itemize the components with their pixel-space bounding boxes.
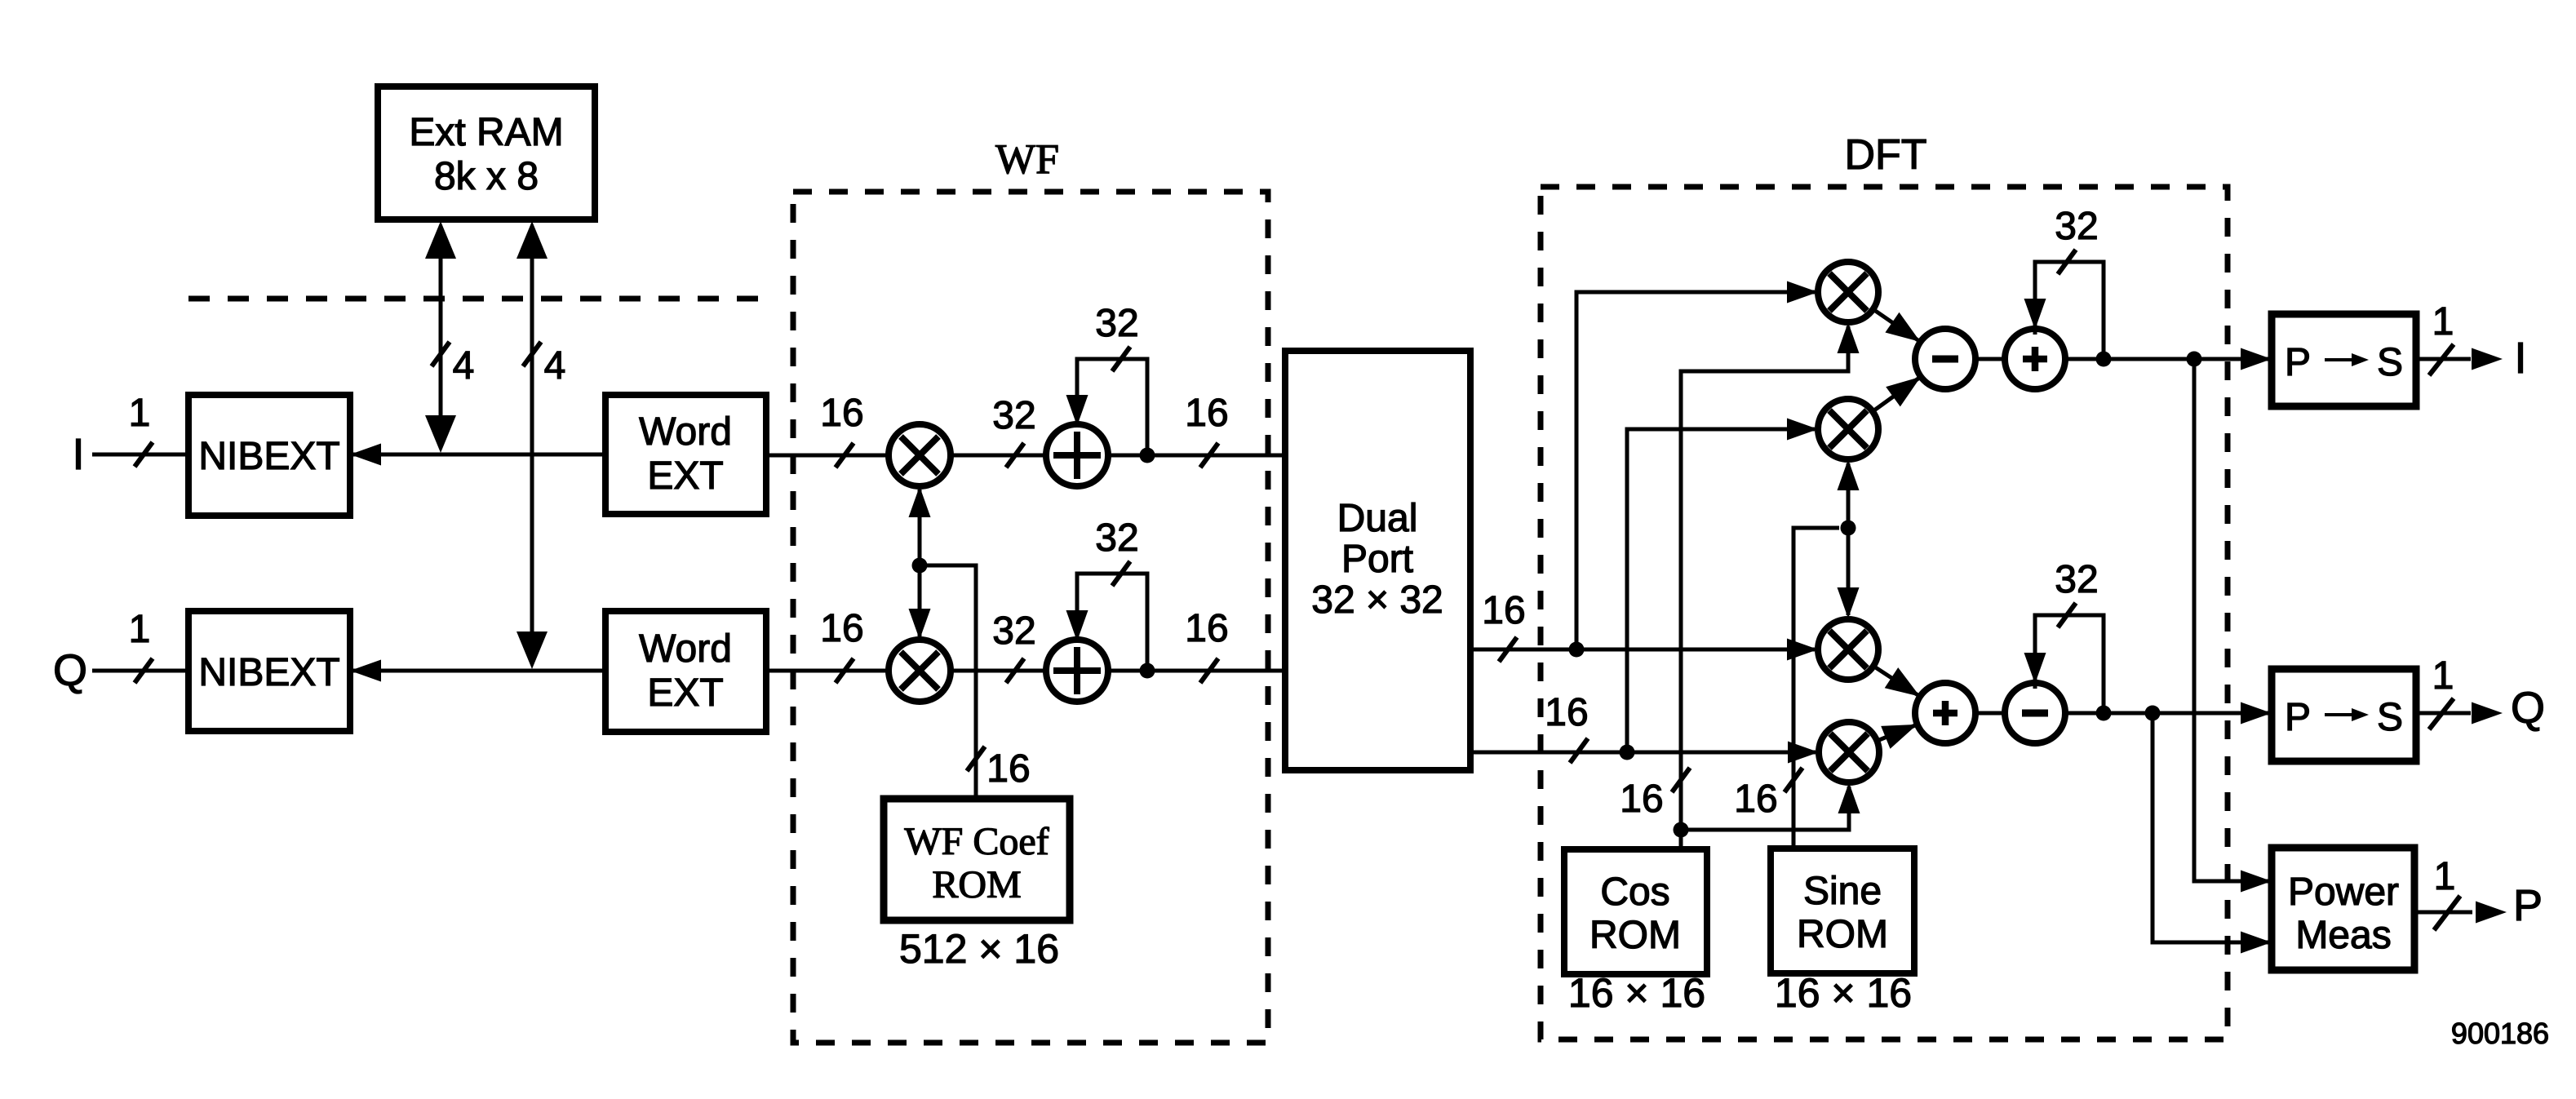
wire I serial output xyxy=(2416,348,2503,370)
svg-text:1: 1 xyxy=(2434,855,2456,898)
wire I input xyxy=(92,453,188,457)
bus slash 32 (I mult out) xyxy=(992,394,1035,468)
svg-text:Power: Power xyxy=(2288,871,2399,914)
svg-text:P: P xyxy=(2513,881,2543,930)
wire Q branch up to multiplier M2 xyxy=(1627,419,1818,753)
svg-text:16: 16 xyxy=(1734,778,1777,821)
wire S1 to adder A1 xyxy=(1975,357,2005,361)
block Power Meas xyxy=(2272,848,2414,970)
junction dot Q output to Power Meas xyxy=(2145,706,2161,721)
svg-text:16: 16 xyxy=(1482,589,1525,632)
svg-text:S: S xyxy=(2377,696,2403,739)
wire Cos ROM output up to multiplier M1 xyxy=(1681,326,1848,849)
svg-text:16: 16 xyxy=(820,392,863,435)
accumulator feedback loop A1 xyxy=(2024,262,2104,359)
svg-text:DFT: DFT xyxy=(1844,131,1926,179)
multiplier M3 (I x sine) xyxy=(1818,619,1878,680)
svg-text:512 × 16: 512 × 16 xyxy=(899,926,1059,972)
svg-text:Ext RAM: Ext RAM xyxy=(409,111,563,154)
svg-text:Port: Port xyxy=(1341,538,1413,581)
wire A2 to subtractor S2 xyxy=(1975,711,2005,716)
multiplier M1 (I x cos) xyxy=(1818,262,1878,322)
block Word EXT (I) xyxy=(605,395,766,514)
svg-text:32 × 32: 32 × 32 xyxy=(1311,578,1443,622)
bus slash 16 (WF Coef ROM out) xyxy=(967,747,1031,791)
bus slash 16 (Sine ROM out) xyxy=(1734,768,1802,821)
svg-text:16: 16 xyxy=(820,607,863,650)
svg-text:NIBEXT: NIBEXT xyxy=(198,435,339,478)
bus slash 16 (I into Dual Port) xyxy=(1185,392,1228,468)
svg-text:16: 16 xyxy=(1620,778,1663,821)
multiplier WF (Q) xyxy=(889,640,951,702)
bidirectional bus Ext RAM to I wire xyxy=(425,221,456,453)
svg-text:Dual: Dual xyxy=(1337,497,1418,540)
svg-text:Q: Q xyxy=(53,646,87,695)
svg-text:4: 4 xyxy=(453,344,475,388)
svg-text:16 × 16: 16 × 16 xyxy=(1775,970,1912,1016)
svg-text:NIBEXT: NIBEXT xyxy=(198,651,339,694)
svg-text:16: 16 xyxy=(1185,392,1228,435)
svg-text:1: 1 xyxy=(2432,300,2454,343)
svg-text:WF Coef: WF Coef xyxy=(904,820,1049,863)
accumulator feedback loop S2 xyxy=(2024,615,2104,713)
svg-text:Word: Word xyxy=(639,410,732,454)
svg-text:Sine: Sine xyxy=(1803,870,1882,913)
bus slash 32 on WF (I) loop xyxy=(1095,302,1138,371)
bus slash 16 (Dual Port I out) xyxy=(1482,589,1525,662)
wire Q output down to Power Meas xyxy=(2153,713,2272,954)
svg-text:900186: 900186 xyxy=(2451,1017,2549,1050)
bus slash 32 on S2 loop xyxy=(2055,558,2098,627)
wire WF multiplier (I) to adder xyxy=(950,454,1048,458)
bus slash 32 on WF (Q) loop xyxy=(1095,516,1138,586)
junction dot coefficient bus xyxy=(912,558,928,574)
block P to S (Q) xyxy=(2272,669,2416,761)
bus slash 1 (I serial out) xyxy=(2429,300,2454,375)
wire WF adder (Q) to Dual Port xyxy=(1106,669,1285,673)
wire Sine branch to multiplier M2 xyxy=(1838,459,1860,531)
wire A1 output to P-S (I) xyxy=(2065,348,2272,370)
wire S2 output to P-S (Q) xyxy=(2065,702,2272,725)
junction dot WF adder (Q) output xyxy=(1140,663,1155,679)
svg-text:Q: Q xyxy=(2511,684,2545,733)
svg-text:32: 32 xyxy=(2055,558,2098,601)
bus slash 32 on A1 loop xyxy=(2055,205,2098,274)
svg-text:16 × 16: 16 × 16 xyxy=(1568,970,1705,1016)
multiplier M4 (Q x cos) xyxy=(1819,722,1879,782)
svg-text:Meas: Meas xyxy=(2295,914,2391,957)
bus slash 32 (Q mult out) xyxy=(992,609,1035,683)
adder A2 (Q row) xyxy=(1915,683,1975,743)
wire Dual Port I output to multiplier M3 xyxy=(1470,639,1818,661)
subtractor S2 (Q row) xyxy=(2005,683,2065,743)
block Sine ROM xyxy=(1771,849,1914,973)
svg-text:WF: WF xyxy=(995,136,1059,183)
svg-text:ROM: ROM xyxy=(932,863,1021,906)
junction dot Dual Port I out xyxy=(1569,642,1585,658)
wire Word EXT (Q) to WF multiplier xyxy=(766,669,891,673)
wire M2 to subtractor S1 xyxy=(1873,377,1921,412)
adder A1 (I row) xyxy=(2005,329,2065,389)
svg-text:P: P xyxy=(2285,341,2311,384)
wire WF multiplier (Q) to adder xyxy=(950,669,1048,673)
multiplier WF (I) xyxy=(889,424,951,486)
svg-text:EXT: EXT xyxy=(647,454,723,498)
bus slash 1 on I input xyxy=(129,392,153,467)
wire M1 to subtractor S1 xyxy=(1873,309,1921,342)
bus slash 16 (Cos ROM out) xyxy=(1620,768,1690,821)
wire WF adder (I) to Dual Port xyxy=(1106,454,1285,458)
svg-text:1: 1 xyxy=(129,608,151,651)
adder WF (I) xyxy=(1046,424,1108,486)
svg-text:4: 4 xyxy=(544,344,566,388)
wire Sine branch to multiplier M3 xyxy=(1838,525,1860,618)
svg-text:ROM: ROM xyxy=(1797,913,1888,956)
DFT dashed box xyxy=(1541,187,2228,1039)
junction dot Cos ROM output xyxy=(1674,822,1689,838)
junction dot I output to Power Meas xyxy=(2187,352,2202,367)
bus slash 1 (Q serial out) xyxy=(2429,654,2454,729)
block Dual Port 32 x 32 xyxy=(1285,351,1470,770)
svg-text:32: 32 xyxy=(992,609,1035,653)
svg-text:EXT: EXT xyxy=(647,671,723,715)
block NIBEXT (Q) xyxy=(188,611,350,731)
svg-text:1: 1 xyxy=(2432,654,2454,698)
wire I output down to Power Meas xyxy=(2194,359,2272,893)
svg-text:32: 32 xyxy=(1095,302,1138,345)
block WF Coef ROM xyxy=(884,799,1070,920)
svg-text:16: 16 xyxy=(1545,691,1588,734)
svg-text:I: I xyxy=(2514,334,2526,383)
svg-text:16: 16 xyxy=(987,747,1030,791)
block P to S (I) xyxy=(2272,314,2416,406)
wire Cos ROM branch to multiplier M4 xyxy=(1681,787,1849,830)
block NIBEXT (I) xyxy=(188,395,350,516)
wire Sine ROM output up xyxy=(1793,528,1839,849)
arrow into M4 bottom xyxy=(1838,782,1860,813)
accumulator feedback loop WF (I) xyxy=(1066,359,1148,455)
wire P output xyxy=(2414,902,2507,924)
svg-text:16: 16 xyxy=(1185,607,1228,650)
block Cos ROM xyxy=(1564,849,1707,974)
block Word EXT (Q) xyxy=(605,611,766,732)
dashed partition line xyxy=(188,296,765,302)
junction dot S2 feedback tap xyxy=(2096,706,2112,721)
svg-text:Cos: Cos xyxy=(1600,871,1669,914)
junction dot Sine ROM output xyxy=(1841,521,1856,536)
wire Word EXT (Q) to NIBEXT (Q) xyxy=(350,660,605,682)
wire Word EXT (I) to WF multiplier xyxy=(766,454,891,458)
multiplier M2 (Q x sine) xyxy=(1818,399,1878,459)
coefficient bus between WF multipliers xyxy=(909,486,931,640)
wire I branch up to multiplier M1 xyxy=(1576,281,1818,650)
junction dot Dual Port Q out xyxy=(1620,745,1635,760)
accumulator feedback loop WF (Q) xyxy=(1066,574,1148,671)
svg-text:I: I xyxy=(72,430,84,479)
arrow into M1 bottom xyxy=(1838,322,1860,353)
svg-text:1: 1 xyxy=(129,392,151,435)
wire Word EXT (I) to NIBEXT (I) xyxy=(350,444,605,466)
wire M3 to adder A2 xyxy=(1873,666,1920,696)
svg-text:32: 32 xyxy=(992,394,1035,437)
svg-text:8k x 8: 8k x 8 xyxy=(434,155,539,198)
svg-text:S: S xyxy=(2377,341,2403,384)
svg-text:32: 32 xyxy=(2055,205,2098,248)
junction dot WF adder (I) output xyxy=(1140,448,1155,463)
subtractor S1 (I row) xyxy=(1915,329,1975,389)
svg-text:ROM: ROM xyxy=(1589,914,1681,957)
bus slash 4 (right) xyxy=(523,342,565,388)
bus slash 1 (P out) xyxy=(2434,855,2460,930)
svg-text:32: 32 xyxy=(1095,516,1138,560)
WF dashed box xyxy=(793,192,1268,1043)
svg-text:Word: Word xyxy=(639,627,732,671)
bus slash 4 (left) xyxy=(432,342,474,388)
adder WF (Q) xyxy=(1046,640,1108,702)
bidirectional bus Ext RAM to Q wire xyxy=(517,221,548,669)
block Ext RAM 8k x 8 xyxy=(378,86,595,219)
bus slash 1 on Q input xyxy=(129,608,153,683)
wire Q serial output xyxy=(2416,702,2503,725)
bus slash 16 (Q into WF mult) xyxy=(820,607,863,683)
bus slash 16 (I into WF mult) xyxy=(820,392,863,468)
junction dot A1 feedback tap xyxy=(2096,352,2112,367)
wire WF Coef ROM to coefficient bus xyxy=(920,565,976,799)
wire M4 to adder A2 xyxy=(1877,725,1917,749)
svg-text:P: P xyxy=(2285,696,2311,739)
bus slash 16 (Dual Port Q out) xyxy=(1545,691,1588,763)
bus slash 16 (Q into Dual Port) xyxy=(1185,607,1228,683)
wire Q input xyxy=(92,669,188,673)
wire Dual Port Q output to multiplier M4 xyxy=(1470,742,1819,764)
